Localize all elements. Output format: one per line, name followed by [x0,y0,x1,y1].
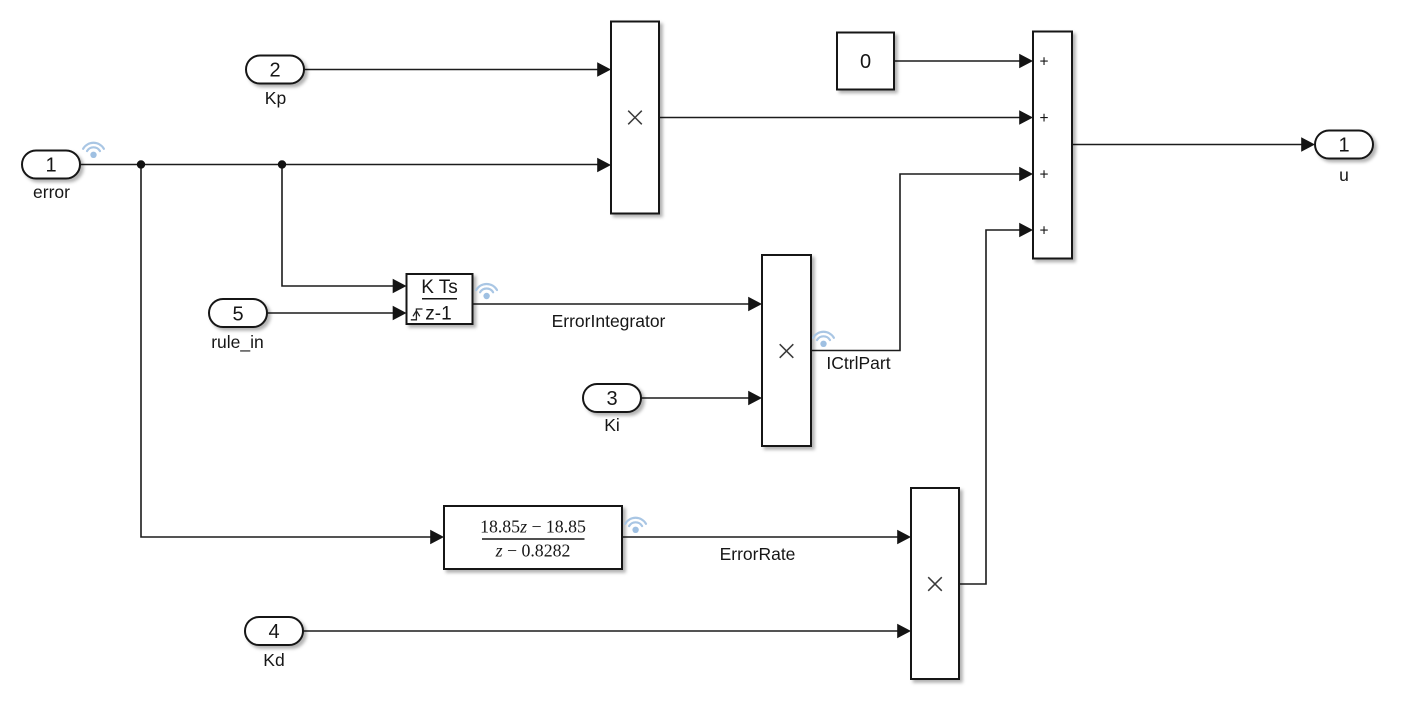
svg-text:error: error [33,182,70,202]
svg-text:ErrorIntegrator: ErrorIntegrator [552,311,666,331]
svg-text:5: 5 [232,304,243,326]
svg-text:+: + [1039,110,1048,127]
svg-text:rule_in: rule_in [211,332,264,353]
svg-text:0: 0 [860,51,871,73]
svg-text:+: + [1039,53,1048,70]
svg-text:18.85z − 18.85: 18.85z − 18.85 [480,517,586,537]
svg-text:K Ts: K Ts [421,277,458,298]
svg-text:3: 3 [606,388,617,410]
svg-text:ICtrlPart: ICtrlPart [826,353,890,373]
svg-text:Kp: Kp [265,88,286,108]
svg-text:z − 0.8282: z − 0.8282 [495,541,571,561]
svg-text:2: 2 [269,60,280,82]
svg-text:Ki: Ki [604,415,620,435]
svg-text:u: u [1339,165,1349,185]
svg-text:Kd: Kd [263,650,284,670]
svg-text:1: 1 [45,155,56,177]
svg-text:4: 4 [268,621,279,643]
svg-text:1: 1 [1338,135,1349,157]
svg-text:z-1: z-1 [425,304,451,325]
svg-text:ErrorRate: ErrorRate [720,544,796,564]
svg-text:+: + [1039,166,1048,183]
svg-text:+: + [1039,222,1048,239]
